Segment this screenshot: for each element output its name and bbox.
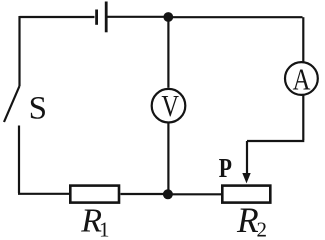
wire voltmeter bottom (V to node) [167,123,169,194]
svg-text:2: 2 [257,217,268,239]
wire elbow horizontal [247,140,304,142]
wire bottom (R1 to node) [121,193,169,195]
battery cell: long plate (positive) [105,2,108,33]
ammeter A circle [285,62,318,95]
battery cell: short plate (negative) [95,10,98,25]
wire top-right (node to corner) [168,16,303,18]
wire bottom (node to R2) [168,193,221,195]
resistor R1 box [70,186,119,203]
wire left vertical lower (switch contact to corner) [18,126,20,194]
wiper arrowhead P [242,173,250,183]
wire top-middle (battery to node) [108,16,169,18]
svg-text:1: 1 [99,218,110,239]
voltmeter V circle [152,89,186,123]
node top junction dot [163,12,173,22]
wire top-left horizontal [20,16,95,18]
wire wiper vertical [246,141,248,175]
resistor R2 box (rheostat) [222,186,270,203]
node bottom junction dot [163,189,173,199]
wire left vertical (corner to switch) [18,16,20,86]
wire bottom-left (corner to R1) [18,193,69,195]
svg-text:A: A [293,62,311,97]
wire voltmeter top (node to V) [167,17,169,88]
svg-text:P: P [219,153,232,183]
wire right vertical (corner to ammeter) [302,17,304,62]
switch S blade [4,86,20,122]
svg-text:V: V [161,88,179,123]
wire right vertical (ammeter to elbow) [302,95,304,140]
svg-text:S: S [29,90,47,126]
